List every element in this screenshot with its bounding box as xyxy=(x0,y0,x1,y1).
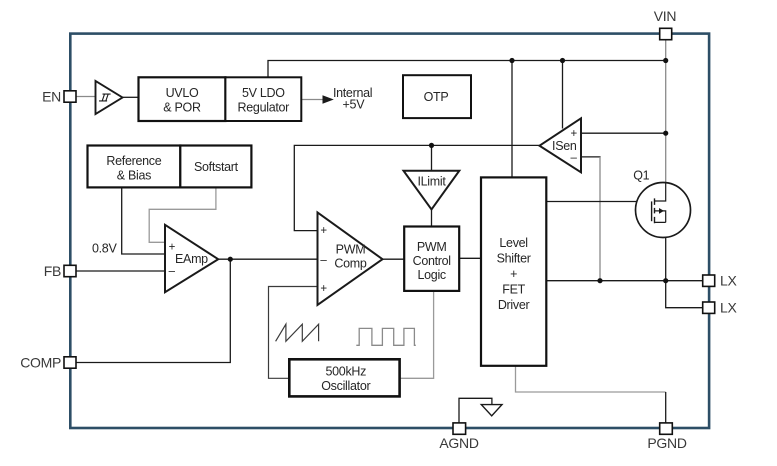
wire schmitt output to UVLO xyxy=(123,96,139,98)
transistor Q1 xyxy=(633,169,690,238)
wire level shifter to Q1 gate xyxy=(546,201,652,203)
wire node to ILimit top xyxy=(431,145,433,170)
wire level shifter to LX pin xyxy=(546,280,703,282)
pin EN xyxy=(42,88,76,104)
svg-text:VIN: VIN xyxy=(654,8,676,24)
svg-text:Logic: Logic xyxy=(418,268,446,282)
block Softstart xyxy=(180,146,251,188)
node rail-VIN xyxy=(663,58,668,63)
svg-text:Reference: Reference xyxy=(106,154,161,168)
svg-text:COMP: COMP xyxy=(20,354,61,370)
svg-text:0.8V: 0.8V xyxy=(92,242,117,256)
svg-text:EN: EN xyxy=(42,88,61,104)
block Reference & Bias xyxy=(88,146,181,188)
wire level shifter bottom to PGND xyxy=(516,366,666,423)
chip outline border xyxy=(70,34,709,428)
block UVLO & POR xyxy=(139,77,226,121)
label Internal +5V xyxy=(333,86,372,112)
svg-text:Softstart: Softstart xyxy=(194,160,239,174)
wire ISen + input to VIN line xyxy=(581,132,666,134)
wire EN pin to schmitt buffer xyxy=(76,96,96,98)
block PWM Control Logic xyxy=(404,227,459,291)
node ISen+ on VIN line xyxy=(663,131,668,136)
pin PGND xyxy=(647,423,686,451)
wire oscillator clock to PWM control logic xyxy=(400,291,434,378)
block 500kHz Oscillator xyxy=(289,359,399,396)
comparator ILimit xyxy=(404,171,460,210)
square wave icon xyxy=(356,328,416,345)
svg-text:Driver: Driver xyxy=(498,298,530,312)
wire EAmp output to PWM comparator - input xyxy=(218,258,317,260)
node rail-levelshifter xyxy=(509,58,514,63)
pin FB xyxy=(44,263,76,279)
pin COMP xyxy=(20,354,76,370)
wire AGND pin to analog ground symbol xyxy=(459,398,492,423)
node ILimit tap xyxy=(429,143,434,148)
svg-text:LX: LX xyxy=(720,273,737,289)
wire oscillator ramp to PWM comparator + input xyxy=(269,287,318,379)
svg-text:–: – xyxy=(571,152,578,164)
svg-text:PGND: PGND xyxy=(647,435,686,451)
block Level Shifter + FET Driver xyxy=(481,177,546,365)
wire PWM control logic to level shifter xyxy=(459,257,481,259)
wire ILimit output to PWM control logic xyxy=(431,209,433,226)
svg-text:FET: FET xyxy=(502,283,525,297)
wire LX node to second LX pin xyxy=(666,281,703,308)
sawtooth waveform icon xyxy=(276,324,319,341)
pin AGND xyxy=(439,423,478,451)
svg-text:OTP: OTP xyxy=(424,90,449,104)
wire FB pin to EAmp - input xyxy=(76,270,165,272)
wire COMP pin to EAmp output node xyxy=(76,259,230,362)
svg-text:Q1: Q1 xyxy=(633,169,649,183)
wire softstart to EAmp xyxy=(149,187,216,242)
node Q1 source on LX line xyxy=(663,278,668,283)
comparator PWM Comp xyxy=(318,213,383,306)
svg-text:5V LDO: 5V LDO xyxy=(242,86,285,100)
svg-text:Level: Level xyxy=(499,236,527,250)
wire Q1 source down to LX node xyxy=(665,222,667,280)
label 0.8V xyxy=(92,242,117,256)
wire ISen output to PWM comparator + input xyxy=(294,145,539,230)
op-amp EAmp xyxy=(165,225,218,292)
svg-text:+: + xyxy=(510,267,517,281)
analog ground symbol xyxy=(481,405,502,416)
wire internal +5V rail from LDO top xyxy=(268,61,666,78)
svg-text:LX: LX xyxy=(720,300,737,316)
svg-text:PWM: PWM xyxy=(417,240,447,254)
node EAmp output / COMP xyxy=(228,257,233,262)
svg-text:UVLO: UVLO xyxy=(166,86,199,100)
svg-text:FB: FB xyxy=(44,263,61,279)
svg-text:ISen: ISen xyxy=(552,139,577,153)
svg-text:+: + xyxy=(320,283,327,295)
block OTP xyxy=(403,75,471,118)
svg-text:–: – xyxy=(320,255,327,267)
svg-text:–: – xyxy=(169,266,176,278)
svg-text:Control: Control xyxy=(413,254,451,268)
svg-text:Regulator: Regulator xyxy=(238,101,290,115)
schmitt trigger buffer on EN xyxy=(96,81,123,114)
svg-text:PWM: PWM xyxy=(336,243,366,257)
wire ISen - input down to LX node xyxy=(581,157,601,281)
wire rail to Level Shifter top xyxy=(511,61,513,178)
pin VIN xyxy=(654,8,676,39)
wire 0.8V reference to EAmp + input xyxy=(122,187,165,254)
wire PWM comparator output to PWM control logic xyxy=(383,258,405,260)
pin LX upper xyxy=(703,273,738,289)
node ISen- on LX line xyxy=(597,278,602,283)
amplifier ISen xyxy=(540,118,582,172)
wire VIN pin down to Q1 drain xyxy=(665,40,667,183)
wire LDO output to Internal +5V arrow xyxy=(301,95,334,103)
svg-text:+5V: +5V xyxy=(343,98,366,112)
svg-text:Shifter: Shifter xyxy=(497,252,531,266)
node rail-ISen xyxy=(560,58,565,63)
pin LX lower xyxy=(703,300,738,316)
wire rail to ISen top xyxy=(562,61,564,129)
svg-text:& Bias: & Bias xyxy=(117,169,151,183)
svg-text:500kHz: 500kHz xyxy=(326,365,367,379)
block 5V LDO Regulator xyxy=(225,77,301,121)
svg-text:Oscillator: Oscillator xyxy=(321,379,370,393)
svg-text:AGND: AGND xyxy=(439,435,478,451)
svg-text:+: + xyxy=(320,225,327,237)
svg-text:Comp: Comp xyxy=(334,257,366,271)
svg-text:& POR: & POR xyxy=(163,101,201,115)
svg-text:EAmp: EAmp xyxy=(175,252,208,266)
svg-text:ILimit: ILimit xyxy=(417,175,446,189)
